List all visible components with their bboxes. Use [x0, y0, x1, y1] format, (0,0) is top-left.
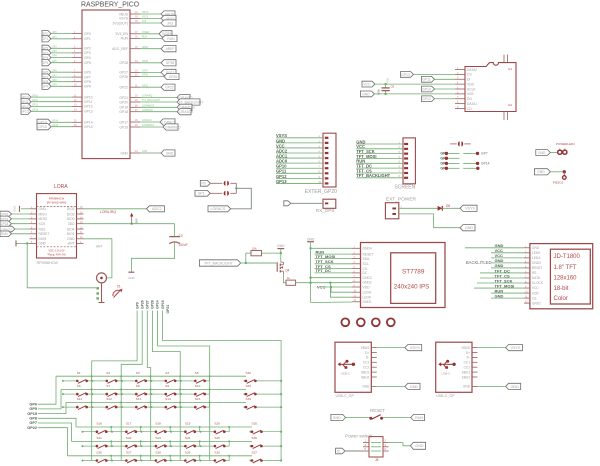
svg-text:D+: D+: [466, 351, 470, 355]
svg-text:CD: CD: [467, 107, 472, 111]
net GP16 flag to U3 MISO: [0, 211, 30, 217]
svg-text:SBU2: SBU2: [361, 375, 370, 379]
svg-text:GP13: GP13: [401, 73, 410, 77]
svg-text:USB-C: USB-C: [441, 371, 450, 375]
mounting hole H4: [387, 318, 395, 326]
U2 pin DI stub: [455, 78, 470, 82]
svg-text:GND2: GND2: [532, 301, 541, 305]
U3 pin SCK left stub: [30, 222, 47, 226]
svg-text:AREF: AREF: [142, 46, 149, 49]
svg-text:S1: S1: [77, 371, 81, 375]
svg-text:DO: DO: [467, 97, 472, 101]
svg-text:CC2: CC2: [363, 366, 370, 370]
svg-text:S23: S23: [155, 436, 161, 440]
svg-text:GP0: GP0: [52, 32, 57, 34]
U1 pin GP19 stub+wire+flag LORAMOSI: [119, 104, 194, 110]
USB-C connector X3 body: [436, 342, 472, 398]
svg-text:GP22: GP22: [119, 86, 128, 90]
svg-text:S20: S20: [214, 422, 220, 426]
svg-text:SCREEN: SCREEN: [394, 184, 415, 190]
svg-text:DIO4: DIO4: [67, 227, 75, 231]
U4 pin LEDK stub: [352, 296, 372, 300]
connector J1 EXTER_GP20 body: [305, 133, 337, 195]
svg-text:VSYS: VSYS: [142, 17, 149, 19]
U1 pin GP15 stub+wire+flag GP15: [37, 124, 93, 130]
J1 wire ADC1: [276, 153, 323, 158]
U1 pin GP2 stub+wire+flag GP2: [42, 45, 91, 51]
svg-text:SBU1: SBU1: [462, 370, 471, 374]
jumper row GP3: [440, 157, 459, 161]
svg-text:GP15: GP15: [27, 412, 37, 416]
svg-text:GP12: GP12: [422, 97, 431, 101]
svg-text:TFT_BACKLIGHT: TFT_BACKLIGHT: [142, 99, 161, 102]
svg-text:GND: GND: [537, 170, 545, 174]
svg-text:RUN: RUN: [121, 37, 129, 41]
svg-text:CS: CS: [467, 73, 472, 77]
U1 pin ADC_REF stub+wire+flag AREF: [112, 46, 176, 52]
switch S33: [244, 384, 282, 397]
switch S2: [91, 371, 122, 384]
svg-text:GP6: GP6: [52, 70, 57, 72]
solder jumper SJ3: [450, 141, 471, 146]
svg-text:3DD: 3DD: [68, 222, 75, 226]
svg-text:S28: S28: [155, 450, 161, 454]
svg-text:DI: DI: [467, 78, 470, 82]
U5 pin GND2 stub: [524, 301, 541, 305]
U1 pin GP10 stub+wire+flag GP10: [20, 94, 93, 100]
svg-text:GP22: GP22: [142, 85, 149, 87]
svg-text:GP5: GP5: [29, 407, 37, 411]
mounting hole H3: [372, 318, 380, 326]
svg-text:S29: S29: [185, 450, 191, 454]
svg-text:GP9: GP9: [52, 85, 57, 87]
svg-text:LEDK: LEDK: [363, 296, 372, 300]
J2 wire TFT_MOSI: [356, 154, 403, 159]
svg-text:LORAMOSI: LORAMOSI: [142, 105, 154, 108]
matrix column bus wire col2: [121, 311, 142, 461]
switch S32: [244, 371, 282, 384]
svg-text:RESET: RESET: [39, 232, 50, 236]
svg-text:S14: S14: [165, 397, 171, 401]
svg-text:GP21: GP21: [166, 305, 170, 314]
svg-text:RASPBERY_PICO: RASPBERY_PICO: [81, 1, 140, 8]
svg-text:MOSI: MOSI: [39, 217, 48, 221]
Q4 gate wire: [246, 262, 277, 264]
switch S28: [141, 450, 172, 463]
svg-text:GP28: GP28: [166, 61, 175, 65]
C3 to gnd symbol wire: [128, 243, 174, 280]
U5 pin VCC stub: [524, 286, 539, 290]
LED POWERLED1: [536, 142, 575, 155]
svg-text:GP19: GP19: [119, 106, 128, 110]
U5 wire GND: [491, 258, 524, 263]
U4 wire VCC to VDD/LEDA: [317, 284, 352, 292]
U1 pin GP22 stub+wire+flag GP22: [119, 84, 175, 90]
U3 pin DIO3 right stub: [67, 212, 84, 216]
matrix row net label GP22: [27, 426, 67, 456]
svg-text:CC1: CC1: [464, 361, 471, 365]
U4 wire TFT_SCK: [315, 259, 353, 264]
switch S16: [82, 422, 113, 435]
svg-text:RESET: RESET: [370, 408, 385, 413]
U1 pin 3V3_EN stub+wire+flag 3V3EN: [115, 31, 172, 37]
svg-text:GP11: GP11: [84, 100, 93, 104]
switch S35: [250, 422, 282, 435]
svg-text:VCC: VCC: [317, 284, 326, 289]
svg-text:G1: G1: [508, 67, 512, 71]
U4 pin GND4 stub: [352, 247, 372, 251]
IC U1 RASPBERY_PICO body: [81, 1, 140, 158]
svg-text:GP9: GP9: [84, 85, 91, 89]
U3 pin RESET left stub: [30, 232, 50, 236]
svg-text:GND: GND: [511, 385, 520, 389]
svg-text:GP14: GP14: [481, 162, 490, 166]
svg-text:SCK: SCK: [39, 222, 47, 226]
matrix column bus wire col6 far: [163, 311, 282, 461]
U2 pin DATA2 stub: [455, 68, 477, 72]
svg-text:S34: S34: [246, 397, 252, 401]
U5 wire GND: [491, 293, 524, 298]
U4 pin SCL stub: [352, 262, 369, 266]
svg-text:POWERLED1: POWERLED1: [556, 142, 575, 146]
U3 pin MOSI left stub: [30, 217, 48, 221]
svg-text:CC2: CC2: [464, 366, 471, 370]
U1 pin GP5 stub+wire+flag GP5: [42, 60, 91, 66]
svg-text:TFT_BACKLIGHT: TFT_BACKLIGHT: [356, 173, 390, 178]
switch S36: [250, 436, 282, 449]
svg-text:LEDK: LEDK: [532, 251, 541, 255]
svg-text:GND: GND: [39, 207, 47, 211]
svg-text:Color: Color: [554, 296, 568, 302]
svg-text:SDA: SDA: [363, 257, 371, 261]
svg-text:GND: GND: [538, 151, 546, 155]
svg-text:GP18: GP18: [119, 110, 128, 114]
X2 VBUS wire to VSYS flag: [377, 345, 422, 351]
U5 wire RUN: [491, 288, 524, 293]
svg-text:GP6: GP6: [84, 71, 91, 75]
svg-text:LORAMISO: LORAMISO: [163, 125, 181, 129]
U5 wire VCC: [491, 253, 524, 258]
svg-text:S9: S9: [165, 384, 169, 388]
svg-text:VSYS: VSYS: [410, 346, 420, 350]
svg-text:LORAIRQ: LORAIRQ: [142, 95, 153, 98]
svg-text:GP5: GP5: [84, 61, 91, 65]
U4 pin VDD stub: [352, 285, 370, 289]
svg-text:S19: S19: [185, 422, 191, 426]
svg-text:GP4: GP4: [52, 56, 57, 58]
svg-text:GND: GND: [362, 92, 370, 96]
svg-text:S11: S11: [77, 397, 83, 401]
svg-text:VCC: VCC: [363, 83, 371, 87]
svg-text:VDD: VDD: [363, 285, 371, 289]
X3 VBUS wire to VSYS flag: [478, 345, 523, 351]
svg-text:128x160: 128x160: [554, 276, 578, 282]
svg-text:VBUS: VBUS: [461, 346, 470, 350]
svg-text:S33: S33: [246, 384, 252, 388]
svg-text:S10: S10: [195, 384, 201, 388]
switch S3: [121, 371, 152, 384]
jumper row extra dot: [463, 167, 479, 170]
J2 wire GND: [356, 139, 403, 144]
J8 wire to GND flag: [389, 442, 426, 449]
svg-text:S30: S30: [214, 450, 220, 454]
svg-text:GP26: GP26: [140, 300, 144, 309]
switch S1: [62, 371, 93, 384]
diode D8: [438, 204, 451, 211]
U1 pin GP21 stub+wire+flag LORAIRQ: [119, 94, 193, 100]
switch S10: [180, 384, 211, 397]
svg-text:3V3_EN: 3V3_EN: [115, 32, 128, 36]
svg-text:LORAMISO: LORAMISO: [142, 124, 154, 127]
X2 pin D-: [366, 356, 377, 360]
svg-text:GP13: GP13: [276, 179, 287, 184]
U5 pin VDD stub: [524, 291, 539, 295]
switch S13: [121, 397, 152, 410]
svg-text:S3: S3: [136, 371, 140, 375]
U5 pin RESET stub: [524, 266, 543, 270]
svg-text:VSYS: VSYS: [465, 207, 475, 211]
switch S29: [170, 450, 201, 463]
U5 pin LEDA stub: [524, 256, 541, 260]
U1 pin VBUS stub+wire+flag VBUS: [119, 11, 175, 17]
svg-text:3V3: 3V3: [135, 218, 139, 223]
svg-text:100n: 100n: [377, 89, 381, 95]
svg-text:GND: GND: [410, 385, 419, 389]
J2 wire TFT_BACKLIGHT: [356, 173, 403, 178]
switch S15: [180, 397, 211, 410]
switch S18: [141, 422, 172, 435]
J1 wire VCC: [276, 143, 323, 148]
svg-text:NSS: NSS: [39, 227, 47, 231]
svg-text:Q4: Q4: [285, 269, 289, 273]
U1 pin GP20 stub+wire+flag TFT_BACKLIGHT: [119, 99, 203, 105]
svg-text:RESET: RESET: [532, 266, 543, 270]
U1 pin GP1 stub+wire+flag GP1: [42, 36, 91, 42]
svg-text:S22: S22: [126, 436, 132, 440]
svg-text:GP5: GP5: [42, 61, 49, 65]
buzzer PIEZO1: [534, 169, 566, 185]
svg-text:PIEZO1: PIEZO1: [553, 180, 564, 184]
net RX flag: [200, 180, 210, 186]
capacitor C8: [377, 78, 395, 95]
matrix row net label GP7: [29, 421, 71, 441]
svg-text:GND: GND: [142, 151, 147, 153]
svg-text:CLOCK: CLOCK: [532, 281, 544, 285]
X2 pin CC2: [363, 366, 377, 370]
U5 wire GND: [491, 263, 524, 268]
svg-text:GP10: GP10: [422, 87, 431, 91]
svg-text:ADC_REF: ADC_REF: [112, 47, 128, 51]
svg-text:S16: S16: [96, 422, 102, 426]
U5 pin CLOCK stub: [524, 281, 544, 285]
U1 pin GP26 stub+wire+flag GP26: [119, 73, 179, 79]
svg-text:AREF: AREF: [166, 47, 175, 51]
svg-text:GP3: GP3: [84, 51, 91, 55]
U2 pin CS stub: [455, 73, 472, 77]
J2 wire TFT_SCK: [356, 149, 403, 154]
transistor Q4: [277, 253, 289, 274]
svg-text:C8: C8: [391, 85, 395, 89]
svg-text:VSS: VSS: [467, 92, 474, 96]
svg-text:GP7: GP7: [84, 75, 91, 79]
SD card socket U2 body: [465, 55, 516, 121]
svg-text:S15: S15: [195, 397, 201, 401]
J2 wire TFT_DC: [356, 164, 403, 169]
U4 pin LEDA stub: [352, 291, 372, 295]
switch S24: [170, 436, 201, 449]
svg-text:GP26: GP26: [119, 75, 128, 79]
svg-text:GP3: GP3: [52, 51, 57, 53]
X3 pin SBU1: [462, 370, 478, 374]
svg-text:GND: GND: [333, 416, 342, 420]
svg-text:GP27: GP27: [146, 300, 150, 309]
U1 pin GP11 stub+wire+flag GP11: [20, 99, 92, 105]
J4 wire pin2 to GND flag: [399, 214, 475, 231]
svg-text:RS: RS: [532, 271, 536, 275]
svg-text:S2: S2: [106, 371, 110, 375]
matrix row net label GP5: [29, 389, 61, 411]
U5 wire GND: [465, 243, 524, 248]
net GP13 flag to U2 CS: [401, 72, 456, 78]
svg-text:GP8: GP8: [29, 417, 37, 421]
svg-text:GP6: GP6: [29, 402, 37, 406]
svg-text:SCLK: SCLK: [467, 87, 476, 91]
svg-text:DATA: DATA: [532, 276, 541, 280]
svg-text:GP16: GP16: [119, 125, 128, 129]
U3 pin GND left stub: [30, 242, 47, 246]
jumper row GP5: [440, 167, 459, 171]
svg-text:CS: CS: [532, 296, 536, 300]
svg-text:VDD: VDD: [467, 82, 475, 86]
display module U4 ST7789 body: [361, 243, 446, 308]
switch S25: [200, 436, 231, 449]
J2 wire RUN: [356, 159, 403, 164]
gnd symbol + bus for U4: [307, 237, 352, 302]
svg-text:TFT_BACKLIGHT: TFT_BACKLIGHT: [204, 261, 234, 265]
X3 pin D-: [467, 356, 478, 360]
svg-text:DIO5: DIO5: [39, 237, 47, 241]
matrix column bus wire col5: [158, 311, 210, 461]
svg-text:USB-C: USB-C: [341, 371, 350, 375]
U1 pin VSYS stub+wire+flag VSYS: [119, 15, 176, 21]
svg-text:GND: GND: [67, 237, 75, 241]
U2 pin DATA1 stub: [455, 102, 477, 106]
svg-text:LEDA: LEDA: [363, 291, 372, 295]
net GP11 flag to U2 DI: [422, 76, 456, 82]
svg-text:GND3: GND3: [532, 261, 541, 265]
U2 pin VSS stub: [455, 92, 474, 96]
svg-text:GP8: GP8: [52, 80, 57, 82]
switch S5: [180, 371, 211, 384]
X3 pin D+: [466, 351, 478, 355]
matrix column bus wire col3: [147, 311, 150, 461]
X2 pin D+: [365, 351, 377, 355]
X3 pin GND: [463, 385, 478, 389]
svg-text:GND: GND: [307, 237, 315, 241]
svg-text:RUN: RUN: [167, 37, 175, 41]
svg-text:*Rang: 434+-5%: *Rang: 434+-5%: [47, 253, 66, 256]
matrix row net label GP8: [29, 417, 76, 428]
switch S4: [150, 371, 181, 384]
matrix row 5 wire: [72, 440, 253, 442]
matrix row 2 wire: [61, 388, 246, 390]
switch S11: [62, 397, 93, 410]
net GP10 flag to U2 SCLK: [422, 86, 456, 92]
svg-text:RUN: RUN: [415, 416, 423, 420]
svg-text:DIO0: DIO0: [67, 217, 75, 221]
U5 wire TFT_SCK: [477, 278, 524, 283]
U1 pin GP14 stub+wire+flag GP14: [37, 119, 93, 125]
U4 pin RESET stub: [352, 252, 374, 256]
svg-text:SCL: SCL: [363, 262, 370, 266]
solder jumper SJ1: [210, 181, 236, 186]
svg-text:GP15: GP15: [84, 125, 93, 129]
switch S9: [150, 384, 181, 397]
connector J4 EXT_POWER body: [385, 196, 416, 219]
svg-text:GP13: GP13: [20, 110, 29, 114]
svg-text:LORASCK: LORASCK: [142, 109, 153, 112]
resistor R6 1k: [283, 274, 352, 285]
U4 pin GND2 stub: [352, 280, 372, 284]
U5 pin DATA stub: [524, 276, 541, 280]
svg-text:GP13: GP13: [32, 110, 39, 112]
svg-text:S26: S26: [96, 450, 102, 454]
X2 pin CC1: [363, 361, 377, 365]
U1 pin GP6 stub+wire+flag GP6: [42, 69, 91, 75]
U1 pin GP18 stub+wire+flag LORASCK: [119, 109, 194, 115]
net RUN flag to U3 RESET: [0, 231, 30, 237]
U5 pin GND3 stub: [524, 261, 541, 265]
svg-text:DIO3: DIO3: [67, 212, 75, 216]
svg-text:GP17: GP17: [119, 120, 128, 124]
svg-text:S6: S6: [77, 384, 81, 388]
net LORACS flag to U3 NSS: [0, 226, 30, 232]
svg-text:GP27: GP27: [142, 71, 149, 73]
svg-text:USB-C_GP: USB-C_GP: [336, 394, 355, 398]
svg-text:S4: S4: [165, 371, 169, 375]
svg-text:GP14: GP14: [84, 121, 93, 125]
svg-text:GP0: GP0: [84, 32, 91, 36]
U1 pin GP28 stub+wire+flag GP28: [119, 60, 176, 66]
svg-text:GP13: GP13: [84, 110, 93, 114]
svg-text:GP28: GP28: [142, 61, 149, 63]
svg-text:1.8" TFT: 1.8" TFT: [554, 265, 577, 271]
U1 pin GP16 stub+wire+flag LORAMISO: [119, 124, 181, 130]
U3 pin DIO4 right stub: [67, 227, 84, 231]
svg-text:VBUS: VBUS: [119, 12, 129, 16]
svg-text:S24: S24: [185, 436, 191, 440]
svg-text:D1: D1: [337, 449, 341, 453]
J1 wire GP10: [276, 164, 323, 169]
J1 wire GP13: [276, 179, 323, 184]
net LORA IRQ wire to ADC2 flag: [84, 206, 165, 214]
svg-text:GP1: GP1: [42, 37, 49, 41]
switch S26: [82, 450, 113, 463]
switch S20: [200, 422, 231, 435]
svg-text:S36: S36: [252, 436, 258, 440]
net GP19 flag to U3 MOSI: [0, 216, 30, 222]
svg-text:SBU1: SBU1: [361, 370, 370, 374]
svg-text:GP22: GP22: [165, 86, 174, 90]
svg-text:GND: GND: [463, 385, 471, 389]
svg-text:GP12: GP12: [84, 105, 93, 109]
U3 GND pin1 to gnd symbol: [13, 206, 30, 212]
solder jumper SJ2: [210, 191, 236, 196]
svg-text:RX_GPS: RX_GPS: [316, 208, 335, 213]
svg-text:GND: GND: [13, 206, 17, 212]
X3 pin VBUS: [461, 346, 477, 350]
svg-text:GND3: GND3: [363, 276, 372, 280]
